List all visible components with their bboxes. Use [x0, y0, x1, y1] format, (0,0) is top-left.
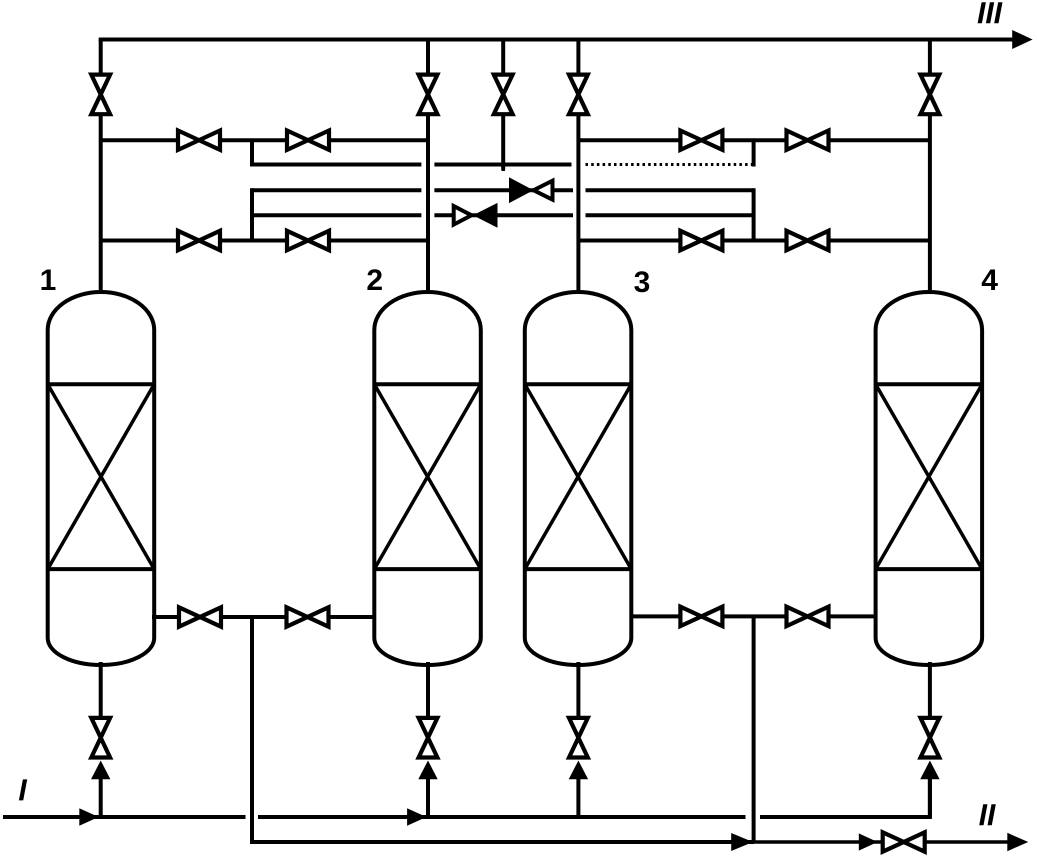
valve on column 4 riser [921, 75, 940, 115]
valve A2 [287, 131, 329, 150]
column 4 riser wire [928, 40, 932, 298]
upper bypass line A right wire [578, 138, 930, 142]
column 4 feed arrow up [920, 761, 939, 780]
upper bypass line A left wire [101, 138, 428, 142]
column 4 bed bottom line [876, 567, 983, 571]
stream III top manifold line [101, 40, 1014, 42]
purge line D left segment [252, 213, 421, 217]
column 2 bottom valve [419, 718, 438, 758]
vent drop wire [501, 40, 505, 170]
valve F2 [287, 607, 329, 626]
check valve CV2 open triangle [454, 206, 472, 225]
column 1 shell [48, 292, 155, 665]
svg-text:2: 2 [366, 264, 383, 297]
bottoms cross line F left wire [152, 615, 376, 619]
connector wire C-D-E right [752, 188, 756, 242]
column 3 feed arrow up [569, 761, 588, 780]
column 1 bottom stub wire [99, 662, 103, 717]
column 1 bottom valve [91, 718, 110, 758]
column 1 bed X [48, 384, 155, 569]
valve F3 [680, 607, 722, 626]
column 3 feed stub wire [576, 779, 580, 817]
valve F1 [179, 607, 221, 626]
column 3 bottom stub wire [576, 662, 580, 717]
column 4 bottom valve [921, 718, 940, 758]
column 1 riser wire [99, 40, 103, 298]
feed line I arrow 1 [79, 808, 98, 826]
valve on column 1 riser [91, 75, 110, 115]
drop wire from line A to line B left [250, 140, 254, 166]
purge line D right segment [586, 213, 754, 217]
vent tee tick [501, 165, 505, 172]
column 1 bed top line [48, 382, 155, 386]
check valve CV1 solid triangle [509, 177, 533, 203]
purge line C right segment [586, 188, 754, 192]
product downcomer right wire [752, 616, 756, 842]
valve on column 3 riser [569, 75, 588, 115]
column 3 bed X [525, 384, 632, 569]
valve E1 [178, 231, 220, 250]
equalization line B left segment [252, 163, 421, 167]
svg-text:3: 3 [634, 266, 651, 299]
svg-text:1: 1 [40, 264, 57, 297]
feed line I segment 2 [258, 815, 746, 819]
column 3 riser wire [576, 40, 580, 298]
valve E2 [287, 231, 329, 250]
feed line I arrow 2 [407, 808, 426, 826]
column 2 bed bottom line [374, 567, 481, 571]
valve on column 2 riser [419, 75, 438, 115]
stream III arrowhead [1012, 30, 1032, 49]
valve E4 [787, 231, 829, 250]
product line II arrow into junction [731, 833, 753, 851]
product line II arrow before valve [859, 833, 878, 850]
column 2 shell [374, 292, 481, 665]
product line II arrowhead [1007, 833, 1028, 851]
column 2 feed stub wire [426, 779, 430, 817]
check valve CV1 open triangle [534, 181, 553, 200]
purge line D middle segment [434, 213, 573, 217]
valve A3 [680, 131, 722, 150]
column 2 riser wire [426, 40, 430, 298]
lower bypass line E left wire [101, 239, 428, 243]
lower bypass line E right wire [578, 239, 930, 243]
purge line C left segment [252, 188, 421, 192]
column 4 shell [876, 292, 983, 665]
valve E3 [680, 231, 722, 250]
product line II valve [883, 832, 925, 851]
equalization line B middle segment [434, 163, 571, 167]
valve F4 [787, 607, 829, 626]
column 2 bottom stub wire [426, 662, 430, 717]
svg-text:4: 4 [981, 264, 998, 297]
check valve CV2 solid triangle [473, 203, 498, 228]
label II [979, 804, 996, 825]
column 2 bed X [374, 384, 481, 569]
label I [19, 779, 27, 800]
column 3 shell [525, 292, 632, 665]
feed line I segment 3 [760, 779, 930, 817]
valve on vent drop [494, 75, 513, 115]
column 3 bed top line [525, 382, 632, 386]
column 3 bottom valve [569, 718, 588, 758]
purge line C middle segment [434, 188, 573, 192]
bottoms cross line F right wire [630, 614, 877, 618]
column 3 bed bottom line [525, 567, 632, 571]
label III [978, 2, 1003, 23]
column 4 feed stub wire [928, 779, 932, 817]
valve A4 [787, 131, 829, 150]
column 1 feed stub wire [99, 779, 103, 817]
column 2 feed arrow up [418, 761, 437, 780]
product downcomer left wire [252, 617, 754, 842]
equalization line B right segment [586, 163, 754, 166]
product line II outlet wire [754, 840, 1010, 844]
column 1 feed arrow up [91, 761, 110, 780]
connector wire C-D-E left [250, 188, 254, 242]
column 4 bed top line [876, 382, 983, 386]
valve A1 [178, 131, 220, 150]
drop wire from line A to line B right [752, 140, 756, 166]
column 4 bottom stub wire [928, 662, 932, 717]
feed line I segment 1 [3, 815, 246, 819]
column 4 bed X [876, 384, 983, 569]
column 2 bed top line [374, 382, 481, 386]
column 1 bed bottom line [48, 567, 155, 571]
